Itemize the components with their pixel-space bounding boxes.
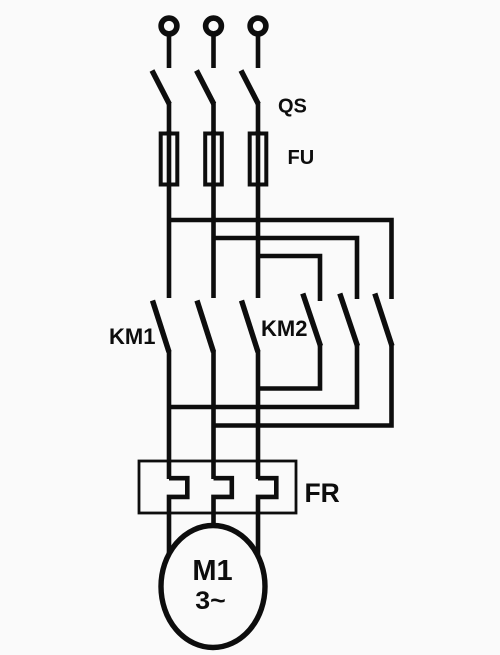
wire KM1 pole3 output down to FR (node W) <box>256 351 261 479</box>
wire QS pole1 to fuse 1 <box>167 102 172 134</box>
wire bus L3 to KM2 left pole <box>258 256 320 301</box>
switch QS pole 3 blade <box>241 71 258 105</box>
svg-text:3~: 3~ <box>195 587 226 615</box>
wire fuse3 down to KM1 pole3 (node L3) <box>256 186 261 298</box>
terminal L3 <box>250 18 266 34</box>
fuse FU 1 body <box>161 134 178 185</box>
switch QS pole 1 blade <box>152 71 169 105</box>
wire KM1 pole2 output down to FR (node V) <box>211 351 216 479</box>
wire KM2 left output to node W bus <box>258 345 320 389</box>
switch QS pole 2 blade <box>197 71 214 105</box>
thermal relay FR heater element 1 <box>169 478 187 562</box>
wire KM2 right output to node V bus <box>214 345 392 426</box>
svg-text:QS: QS <box>278 96 307 118</box>
fuse FU 3 body <box>250 134 267 185</box>
thermal relay FR box <box>139 461 296 513</box>
contactor KM1 pole 3 blade <box>242 301 259 353</box>
fuse FU 2 link wire <box>211 131 216 186</box>
fuse FU 1 link wire <box>167 131 172 186</box>
wire L1 terminal to QS <box>167 35 172 68</box>
wire QS pole2 to fuse 2 <box>211 102 216 134</box>
fuse FU 3 link wire <box>256 131 261 186</box>
terminal L2 <box>206 18 222 34</box>
terminal L1 <box>161 18 177 34</box>
wire KM2 middle output to node U bus <box>169 345 357 407</box>
svg-text:M1: M1 <box>192 555 232 587</box>
wire fuse2 down to KM1 pole2 (node L2) <box>211 186 216 298</box>
contactor KM2 left pole blade <box>303 294 321 347</box>
svg-text:FU: FU <box>288 147 315 169</box>
contactor KM2 right pole blade <box>375 294 392 347</box>
wire L3 terminal to QS <box>256 35 261 68</box>
svg-text:KM1: KM1 <box>109 324 155 349</box>
contactor KM1 pole 2 blade <box>197 301 214 353</box>
motor M1 body <box>161 526 265 648</box>
wire bus L1 to KM2 right pole <box>169 220 392 299</box>
fuse FU 2 body <box>205 134 222 185</box>
wire KM1 pole1 output down to FR (node U) <box>167 351 172 479</box>
contactor KM1 pole 1 blade <box>153 301 170 353</box>
wire bus L2 to KM2 middle pole <box>214 238 358 299</box>
wire L2 terminal to QS <box>211 35 216 68</box>
svg-text:FR: FR <box>305 478 340 508</box>
thermal relay FR heater element 2 <box>214 478 232 529</box>
wire fuse1 down to KM1 pole1 (node L1) <box>167 186 172 298</box>
thermal relay FR heater element 3 <box>258 478 276 562</box>
contactor KM2 middle pole blade <box>340 294 358 347</box>
svg-text:KM2: KM2 <box>261 316 307 341</box>
wire QS pole3 to fuse 3 <box>256 102 261 134</box>
